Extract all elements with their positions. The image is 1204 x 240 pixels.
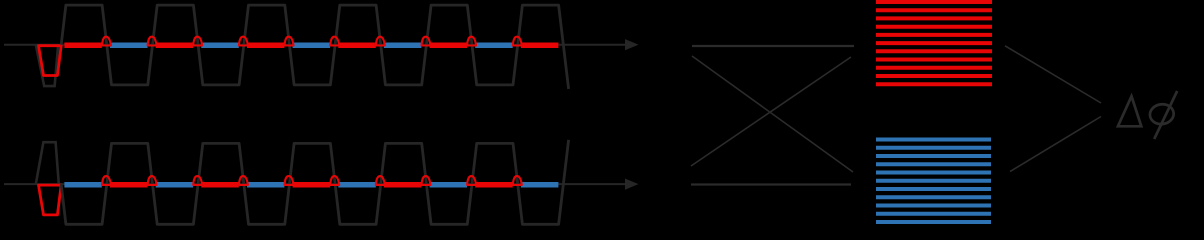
blue segment 9: [430, 182, 467, 188]
red segment 2: [110, 182, 148, 188]
red bump at transition 10: [513, 176, 522, 185]
red segment 4: [201, 182, 239, 188]
line red block to phase: [1005, 46, 1101, 103]
line bottom-row to blue block: [691, 183, 851, 185]
red bump at transition 3: [193, 176, 202, 185]
delta phi label: [1118, 91, 1177, 139]
initial red pulse row1: [39, 46, 62, 76]
red bump at transition 7: [376, 37, 385, 46]
blue segment 1: [64, 182, 101, 188]
red bump at transition 2: [148, 176, 157, 185]
red segment 11: [521, 43, 559, 49]
blue segment 10: [475, 43, 513, 49]
red bump at transition 9: [467, 37, 476, 46]
red bump at transition 1: [102, 37, 111, 46]
red bump at transition 8: [422, 37, 431, 46]
red segment 7: [338, 43, 376, 49]
axis arrow line row1: [4, 39, 639, 50]
red bump at transition 8: [422, 176, 431, 185]
red segment 1: [64, 43, 101, 49]
blue fringe block: [876, 140, 991, 223]
initial red pulse row2: [39, 185, 62, 215]
red bump at transition 5: [285, 176, 294, 185]
red bump at transition 9: [467, 176, 476, 185]
line top-row to blue block diagonal: [692, 56, 853, 172]
blue segment 2: [110, 43, 148, 49]
blue segment 11: [521, 182, 559, 188]
red bump at transition 1: [102, 176, 111, 185]
red bump at transition 7: [376, 176, 385, 185]
blue segment 6: [293, 43, 331, 49]
red segment 5: [247, 43, 284, 49]
red segment 6: [293, 182, 331, 188]
trapezoid waveform row1: [61, 5, 568, 89]
blue segment 3: [156, 182, 193, 188]
line top-row to red block: [692, 45, 854, 47]
initial dark pulse row2: [36, 142, 59, 184]
red bump at transition 5: [285, 37, 294, 46]
red segment 8: [384, 182, 422, 188]
red segment 3: [156, 43, 193, 49]
line bottom-row to red block diagonal: [691, 57, 851, 166]
red bump at transition 3: [193, 37, 202, 46]
blue segment 7: [338, 182, 376, 188]
axis arrow line row2: [4, 179, 639, 190]
red segment 10: [475, 182, 513, 188]
blue segment 4: [201, 43, 239, 49]
red segment 9: [430, 43, 467, 49]
blue segment 8: [384, 43, 422, 49]
initial dark pulse row1: [36, 45, 58, 86]
red fringe block: [876, 2, 992, 84]
blue segment 5: [247, 182, 284, 188]
red bump at transition 4: [239, 37, 248, 46]
trapezoid waveform row2: [61, 140, 568, 225]
red bump at transition 6: [330, 176, 339, 185]
red bump at transition 10: [513, 37, 522, 46]
red bump at transition 4: [239, 176, 248, 185]
red bump at transition 6: [330, 37, 339, 46]
line blue block to phase: [1010, 117, 1101, 172]
red bump at transition 2: [148, 37, 157, 46]
